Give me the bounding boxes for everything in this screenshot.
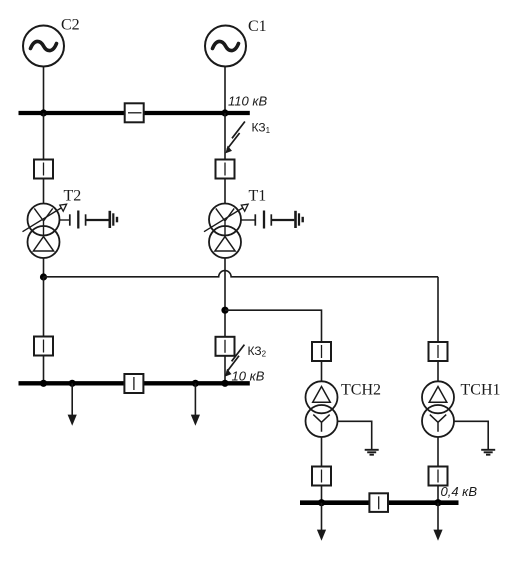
wire C2 to 110kV bus bbox=[43, 67, 45, 114]
load feeder left (0.4kV) bbox=[317, 503, 326, 541]
svg-text:0,4 кВ: 0,4 кВ bbox=[441, 484, 478, 499]
wire TCH1 breaker to TCH1 bbox=[437, 361, 439, 382]
wire node B to TCH2 branch bbox=[225, 310, 322, 342]
node: C2 feeder on 110kV bus bbox=[40, 109, 47, 116]
generator C1 bbox=[205, 26, 246, 67]
wire TCH2 to lower breaker bbox=[321, 437, 323, 467]
load feeder right (10kV) bbox=[191, 383, 200, 425]
node: right load on 10kV bus bbox=[192, 380, 199, 387]
svg-text:КЗ2: КЗ2 bbox=[248, 344, 267, 359]
wire TCH1 to lower breaker bbox=[437, 437, 439, 467]
wire T1 breaker to 10kV bus bbox=[224, 356, 226, 384]
svg-text:110 кВ: 110 кВ bbox=[228, 94, 267, 109]
breaker: TCH1 secondary bbox=[429, 467, 448, 486]
wire node A down to T2 lower breaker bbox=[43, 277, 45, 337]
wire T2 breaker to 10kV bus bbox=[43, 356, 45, 384]
node: TCH2 on 0.4kV bus bbox=[318, 499, 325, 506]
svg-text:C2: C2 bbox=[61, 17, 80, 34]
wire TCH2 breaker to 0.4kV bus bbox=[321, 486, 323, 503]
transformer T1 bbox=[204, 204, 248, 259]
wire C1 to 110kV bus bbox=[224, 67, 226, 114]
wire TCH2 breaker to TCH2 bbox=[321, 361, 323, 382]
wire T2 to node A bbox=[43, 258, 45, 277]
svg-text:Т1: Т1 bbox=[249, 188, 267, 205]
node: T1 on 10kV bus bbox=[221, 380, 228, 387]
breaker: TCH2 secondary bbox=[312, 467, 331, 486]
breaker: 0.4kV bus-tie bbox=[369, 493, 388, 512]
transformer TCH2 bbox=[306, 381, 338, 437]
TCH1 earthing bbox=[454, 421, 495, 454]
short-circuit arrow КЗ1 bbox=[225, 122, 245, 154]
T2 neutral earthing chain bbox=[60, 211, 118, 229]
breaker: T1 110kV side bbox=[216, 160, 235, 179]
wire T1 breaker to T1 bbox=[224, 179, 226, 205]
node: T2 on 10kV bus bbox=[40, 380, 47, 387]
breaker: 110kV bus-tie bbox=[125, 103, 144, 122]
svg-text:Т2: Т2 bbox=[64, 188, 82, 205]
svg-text:ТСН2: ТСН2 bbox=[341, 382, 381, 399]
busbar 110 kV bbox=[19, 111, 250, 115]
wire T2 breaker to T2 bbox=[43, 179, 45, 205]
busbar 10 kV bbox=[19, 381, 250, 385]
node: left load on 10kV bus bbox=[69, 380, 76, 387]
breaker: 10kV bus-tie bbox=[124, 374, 143, 393]
breaker: T2 110kV side bbox=[34, 160, 53, 179]
node B: T1 output junction bbox=[221, 307, 228, 314]
svg-text:C1: C1 bbox=[248, 18, 267, 35]
wire T1 down through hop to node B bbox=[224, 258, 226, 337]
breaker: TCH1 primary bbox=[429, 342, 448, 361]
node A: T2 output junction bbox=[40, 273, 47, 280]
wire bus to T1 breaker bbox=[224, 113, 226, 160]
wire TCH1 breaker to 0.4kV bus bbox=[437, 486, 439, 503]
load feeder right (0.4kV) bbox=[433, 503, 442, 541]
node: C1 feeder on 110kV bus bbox=[221, 109, 228, 116]
TCH2 earthing bbox=[338, 421, 379, 454]
transformer TCH1 bbox=[422, 381, 454, 437]
wire tie line down to TCH1 branch bbox=[437, 277, 439, 342]
breaker: T1 10kV side bbox=[216, 337, 235, 356]
breaker: T2 10kV side bbox=[34, 337, 53, 356]
busbar 0,4 kV bbox=[300, 500, 459, 505]
svg-text:ТСН1: ТСН1 bbox=[461, 382, 501, 399]
transformer T2 bbox=[23, 204, 67, 259]
node: TCH1 on 0.4kV bus bbox=[434, 499, 441, 506]
short-circuit arrow КЗ2 bbox=[225, 345, 245, 377]
T1 neutral earthing chain bbox=[241, 211, 303, 229]
load feeder left (10kV) bbox=[68, 383, 77, 425]
svg-text:КЗ1: КЗ1 bbox=[252, 121, 271, 136]
wire 10kV tie line with hop over T1 feeder bbox=[44, 271, 439, 277]
breaker: TCH2 primary bbox=[312, 342, 331, 361]
generator C2 bbox=[23, 26, 64, 67]
wire bus to T2 breaker bbox=[43, 113, 45, 160]
